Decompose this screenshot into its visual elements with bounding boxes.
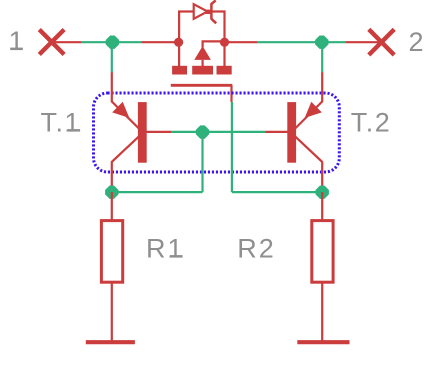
transistor T2 emitter arrow (305, 102, 322, 118)
terminal 2 (X) (369, 29, 394, 55)
wire: T1 base lead (red) (147, 131, 172, 133)
wire: R2 bottom lead (321, 282, 323, 342)
transistor T1 emitter arrow (112, 102, 129, 118)
bottom plate (171, 84, 233, 87)
diode cathode bar with ticks (211, 0, 216, 23)
node: main wire right junction (green) (315, 36, 328, 49)
transistor T1 emitter diagonal (112, 102, 139, 129)
wire: net2 right (green) (258, 41, 346, 43)
wire: plate net horizontal to right node (green) (232, 191, 322, 193)
wire: base net horizontal to left node (green) (112, 191, 203, 193)
node: diode apex blob (206, 10, 213, 14)
svg-text:T.1: T.1 (41, 108, 82, 138)
svg-text:2: 2 (409, 27, 424, 57)
wire: plate lead down (red) (230, 85, 232, 102)
node: right pin junction (red dot) (220, 38, 229, 47)
terminal 1 (X) (39, 30, 64, 55)
wire: diode right riser (211, 12, 224, 43)
wire: left riser red part (T1 emitter lead) (111, 72, 113, 102)
transistor T2 base bar (287, 102, 296, 163)
wire: diode left riser (179, 12, 194, 43)
svg-text:1: 1 (9, 26, 24, 56)
wire: net1 left (green) (81, 41, 141, 43)
transistor T2 collector diagonal (295, 136, 322, 192)
diode (top, anode triangle) (194, 4, 208, 19)
wire: right riser red part (T2 emitter lead) (321, 72, 323, 102)
selection box (blue dotted) (94, 93, 340, 172)
wire: component pin lead left (red) (141, 41, 178, 43)
pad middle (192, 66, 213, 75)
node: left pin junction (red dot) (174, 38, 183, 47)
wire: plate net vertical (green) (231, 102, 233, 192)
svg-text:T.2: T.2 (351, 108, 392, 138)
pad left (172, 66, 187, 75)
transistor T1 collector diagonal (112, 136, 139, 192)
svg-text:R2: R2 (237, 234, 276, 264)
wire: R1 bottom lead (111, 282, 113, 342)
pad right (217, 66, 232, 75)
electrode stub right (223, 42, 225, 66)
middle electrode arrow (194, 46, 211, 60)
electrode stub left (178, 42, 180, 66)
wire: terminal2 lead (red) (345, 41, 381, 43)
wire: left riser green part (111, 42, 113, 72)
resistor R2 (312, 221, 333, 283)
wire: R2 top lead (321, 192, 323, 221)
node: bottom right junction (green) (316, 186, 329, 199)
transistor T1 base bar (138, 102, 147, 163)
wire: R1 top lead (111, 192, 113, 221)
wire: base net vertical down (green) (201, 132, 203, 192)
wire: base net (green) (171, 131, 266, 133)
node: base net junction (green) (196, 125, 209, 138)
node: main wire left junction (green) (106, 36, 119, 49)
node: bottom left junction (green) (105, 186, 118, 199)
wire: component pin lead right (red) (225, 41, 258, 43)
middle electrode stem (202, 60, 204, 67)
transistor T2 emitter diagonal (295, 102, 322, 129)
middle electrode jog wire (203, 41, 225, 47)
wire: T2 base lead (red) (266, 131, 288, 133)
svg-text:R1: R1 (146, 234, 185, 264)
ground left (86, 340, 135, 344)
wire: right riser green part (321, 42, 323, 72)
wire: terminal1 lead (red) (52, 41, 81, 43)
ground right (297, 340, 349, 344)
resistor R1 (101, 221, 122, 283)
